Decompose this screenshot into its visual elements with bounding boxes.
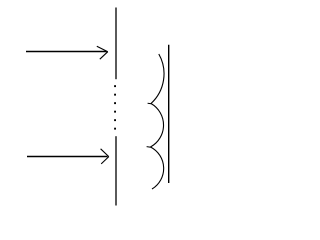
wire lower incident ray shaft [27, 156, 108, 158]
wire barrier upper segment [115, 8, 117, 80]
node cusp tick lower [147, 146, 151, 149]
wire barrier lower segment [115, 136, 117, 205]
node slit dots [114, 85, 116, 129]
node scalloped wavefront envelope [151, 54, 165, 189]
node lower arrowhead [101, 149, 109, 164]
wire plane wavefront line [168, 45, 170, 183]
node upper arrowhead [97, 46, 108, 59]
node cusp tick upper [148, 102, 152, 105]
wire upper incident ray shaft [26, 51, 107, 53]
